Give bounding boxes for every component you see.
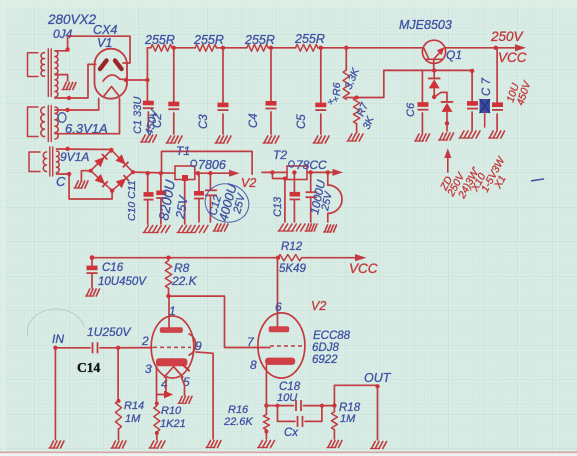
ground C5 — [313, 136, 329, 143]
svg-text:9V1A: 9V1A — [60, 150, 89, 164]
svg-text:C10 C11: C10 C11 — [126, 180, 138, 221]
wire Cx loop — [278, 406, 322, 422]
ground C10 C11 — [143, 226, 170, 233]
capacitor C11 — [156, 191, 166, 199]
wire B+ rail segment 1 — [147, 47, 150, 49]
label Cx — [284, 427, 299, 439]
wire anode coupling loop — [169, 296, 270, 347]
wire C7b column — [496, 48, 498, 130]
svg-text:V2: V2 — [311, 299, 326, 313]
ground C7b — [489, 131, 505, 138]
V1 right anode plate — [115, 61, 122, 70]
capacitor C12b — [205, 190, 217, 195]
svg-text:T2: T2 — [273, 148, 287, 162]
svg-text:3: 3 — [145, 362, 152, 376]
label ZD — [438, 174, 456, 193]
label R12 — [281, 241, 303, 253]
wire T1 out to V2 arrow — [195, 170, 240, 177]
label C6 — [405, 102, 417, 117]
label VCC top — [498, 50, 527, 65]
wire rail seg6 Q1 to VCC arrow — [445, 44, 526, 51]
label 10U c18 — [277, 392, 297, 404]
label 450V C1 — [143, 107, 161, 136]
label 3.3K — [343, 66, 363, 91]
svg-text:6: 6 — [275, 300, 282, 314]
svg-text:T1: T1 — [176, 144, 190, 158]
svg-text:1U250V: 1U250V — [87, 325, 131, 339]
wire input node — [53, 346, 90, 350]
label 22.6K — [223, 416, 253, 428]
label R14 — [124, 400, 144, 412]
svg-text:22.K: 22.K — [171, 274, 198, 288]
label R8 — [174, 261, 190, 275]
label 250V zd — [445, 170, 468, 199]
capacitor C14 — [93, 342, 98, 353]
label 1U250V — [87, 325, 131, 339]
wire C13b column — [310, 172, 312, 222]
V2b cathode bar — [265, 358, 295, 365]
label T2 — [273, 148, 287, 162]
V2a heater vee — [164, 367, 182, 378]
ground C16 — [86, 289, 100, 296]
ground IN — [49, 441, 64, 448]
resistor R14 1M — [116, 399, 122, 440]
label pin 7 — [247, 335, 255, 349]
capacitor C16 — [87, 266, 98, 288]
label 6.3V1A — [65, 121, 108, 136]
label 25V t2 — [319, 190, 335, 213]
svg-text:R10: R10 — [161, 405, 182, 417]
label C2 — [152, 113, 164, 128]
label C12 — [207, 194, 224, 217]
svg-text:R14: R14 — [124, 400, 144, 412]
label pin 5 — [183, 375, 190, 389]
svg-text:78CC: 78CC — [296, 158, 327, 172]
label X1 — [492, 173, 509, 191]
label C3 — [198, 114, 210, 129]
wire T1 gnd pin — [184, 181, 186, 224]
wire rail seg4 — [268, 46, 295, 50]
svg-text:R12: R12 — [281, 241, 303, 253]
label MJE8503 — [399, 18, 452, 32]
label 15V3W — [479, 154, 508, 194]
wire C13 column — [293, 172, 295, 222]
svg-text:0J4: 0J4 — [53, 27, 73, 41]
transformer TR1 core — [48, 49, 51, 97]
wire C11 column — [160, 173, 162, 224]
zener diode ZD2 — [442, 102, 453, 131]
ground C3 — [215, 136, 231, 143]
transformer TR3 primary — [29, 152, 47, 172]
svg-text:Cx: Cx — [284, 427, 299, 439]
label x marks — [325, 94, 341, 107]
transformer TR2 primary — [28, 107, 45, 137]
label C7 — [481, 78, 493, 97]
capacitor C10 — [144, 192, 154, 200]
svg-text:IN: IN — [52, 332, 64, 346]
ground bridge — [74, 181, 88, 188]
capacitor C6 — [418, 102, 429, 110]
label 25V reg — [173, 194, 191, 221]
label C1 33U — [132, 97, 144, 134]
label O 7806 — [191, 158, 226, 172]
svg-text:5K49: 5K49 — [279, 263, 306, 275]
ground T2 area — [278, 224, 337, 232]
svg-text:C13: C13 — [272, 196, 284, 217]
label C winding — [56, 174, 66, 189]
label 1M r18 — [340, 413, 356, 425]
label CX4 — [93, 23, 117, 37]
bridge diode D-BL — [95, 174, 108, 187]
svg-text:VCC: VCC — [349, 261, 378, 276]
ground pin9 — [206, 441, 221, 448]
capacitor C3 — [218, 103, 229, 111]
capacitor C5 — [315, 103, 326, 111]
resistor R10 1K21 — [154, 406, 160, 440]
svg-text:C1 33U: C1 33U — [132, 97, 144, 134]
wire V1 cathode to B+ rail — [124, 78, 150, 82]
resistor R 255R #1 — [144, 33, 175, 51]
svg-text:8: 8 — [250, 358, 257, 372]
label pin 6 — [275, 300, 282, 314]
ground pin5 — [178, 396, 192, 403]
pin9 arc — [189, 334, 196, 355]
wire T2 input — [262, 170, 287, 174]
ground R7 — [347, 134, 363, 141]
resistor R 255R #3 — [244, 33, 275, 51]
label C18 — [279, 381, 301, 393]
capacitor C13 — [290, 192, 301, 200]
svg-text:V2: V2 — [241, 176, 256, 190]
wire C1 column — [146, 48, 149, 133]
transistor Q1 MJE8503 — [422, 40, 445, 63]
label C5 — [296, 114, 308, 129]
label Q1 — [446, 48, 462, 62]
ground OUT — [371, 442, 387, 449]
zener diode ZD1 — [429, 70, 440, 99]
svg-text:22.6K: 22.6K — [223, 416, 253, 428]
resistor R 255R #2 — [193, 33, 224, 51]
wire Q1 base lead — [433, 59, 435, 70]
wire rail R8 to R12 — [166, 256, 280, 260]
label R6 — [331, 82, 343, 96]
wire R6 top — [345, 48, 347, 70]
wire bypass over T1 — [162, 151, 253, 174]
label V2 heater — [241, 176, 256, 190]
svg-text:1K21: 1K21 — [160, 418, 186, 430]
wire to OUT — [334, 384, 379, 440]
svg-text:4: 4 — [161, 377, 168, 391]
bridge rectifier — [91, 150, 133, 191]
wire IN to ground — [54, 348, 56, 440]
wire C12a column — [198, 173, 200, 222]
svg-text:255R: 255R — [193, 33, 224, 47]
resistor R6 3.3K — [343, 70, 349, 99]
wire rail seg3 — [217, 46, 247, 50]
svg-text:6DJ8: 6DJ8 — [312, 342, 339, 354]
scan edge line — [0, 452, 577, 456]
transformer TR3 secondary 9V — [57, 151, 60, 173]
svg-text:9: 9 — [195, 339, 202, 353]
label C10 C11 — [126, 180, 138, 221]
capacitor C12a — [194, 191, 204, 199]
capacitor C1 — [143, 101, 154, 109]
label 1000U — [307, 178, 328, 215]
capacitor C7b — [492, 102, 503, 110]
bridge diode D-TL — [94, 154, 107, 167]
capacitor C7a — [467, 101, 478, 109]
V1 filament — [104, 87, 120, 97]
ground R18 — [327, 441, 342, 448]
wire C10 column — [147, 173, 149, 224]
wire 9V top to bridge — [57, 147, 112, 152]
label R18 — [339, 402, 361, 414]
wire rail to VCC arrow — [302, 254, 367, 261]
label C13 — [272, 196, 284, 217]
transformer TR2 secondary 6.3V — [55, 107, 58, 139]
capacitor C2 — [168, 102, 179, 110]
V2a anode bar — [160, 327, 183, 333]
resistor R16 22.6K — [263, 406, 269, 439]
svg-text:1M: 1M — [125, 413, 141, 425]
ground C4 — [263, 136, 279, 143]
label O ring 6.3V — [58, 113, 66, 123]
label 5K49 — [279, 263, 306, 275]
label 1K21 — [160, 418, 186, 430]
rectifier tube V1 envelope — [95, 49, 128, 99]
wire pin1 lead — [168, 296, 170, 327]
wire cathode node — [266, 403, 336, 407]
label V1 — [97, 36, 112, 50]
ground R10 — [149, 441, 165, 448]
wire 6.3V bottom to filament — [55, 99, 120, 134]
svg-text:C3: C3 — [198, 114, 210, 129]
svg-text:C: C — [56, 174, 66, 189]
svg-text:7806: 7806 — [198, 158, 226, 172]
wire ZD1 to ZD2 — [434, 92, 447, 101]
label 25V c12 — [231, 191, 248, 216]
wire T2 gnd route — [273, 172, 287, 222]
svg-text:OUT: OUT — [364, 371, 392, 385]
wire 9V bottom to bridge — [57, 172, 113, 199]
svg-text:VCC: VCC — [498, 50, 527, 65]
wire grid2 lead — [118, 347, 152, 349]
wire C3 column — [222, 48, 224, 134]
regulator T1 7806 box — [175, 166, 195, 181]
ground T1 pin + C12 — [177, 224, 228, 233]
wire bridge to T1 — [133, 171, 175, 175]
ground R16 — [258, 441, 275, 448]
svg-text:250V: 250V — [490, 29, 525, 44]
svg-text:255R: 255R — [294, 32, 325, 46]
label O 78CC — [289, 158, 327, 172]
svg-text:6922: 6922 — [312, 354, 338, 366]
label R10 — [161, 405, 182, 417]
transformer TR3 core — [50, 147, 53, 176]
svg-text:MJE8503: MJE8503 — [399, 18, 452, 32]
wire pin6 lead — [277, 258, 279, 327]
label ECC88 — [313, 330, 351, 342]
label 6922 — [312, 354, 338, 366]
label 22.K — [171, 274, 198, 288]
wire pin5 to ground — [182, 378, 185, 396]
capacitor C4 — [266, 101, 277, 109]
V2b grid dashes — [270, 345, 302, 347]
svg-text:10U: 10U — [277, 392, 297, 404]
label C4 — [248, 113, 260, 128]
label R16 — [228, 404, 249, 416]
label V2 tube — [311, 299, 326, 313]
label 9V1A — [60, 150, 89, 164]
svg-text:ECC88: ECC88 — [313, 330, 351, 342]
label 10U450V — [98, 276, 147, 288]
wire base node — [346, 68, 474, 97]
blue dash — [532, 179, 544, 181]
svg-text:R16: R16 — [228, 404, 249, 416]
svg-text:C4: C4 — [248, 113, 260, 128]
wire C5 column — [320, 48, 322, 134]
wire C12b column — [209, 173, 211, 222]
ground ZD2 — [439, 133, 454, 140]
label OUT — [364, 371, 392, 385]
V2a grid dashes — [153, 346, 191, 348]
wire bridge minus to ground — [81, 169, 92, 181]
svg-text:280VX2: 280VX2 — [47, 12, 97, 27]
wire pin4 heater arrow — [157, 378, 173, 399]
label T1 — [176, 144, 190, 158]
label C12 loop — [201, 179, 253, 227]
svg-text:C16: C16 — [102, 262, 124, 274]
resistor R 255R #4 — [294, 32, 325, 51]
label 6DJ8 — [312, 342, 339, 354]
svg-text:255R: 255R — [144, 33, 175, 47]
svg-text:Q1: Q1 — [446, 48, 462, 62]
ground C7a — [459, 131, 480, 138]
wire R14 column — [117, 348, 119, 401]
wire cathode3 lead — [155, 366, 159, 406]
label 10U 450V — [504, 79, 533, 107]
regulator T2 box — [287, 166, 307, 180]
svg-text:2: 2 — [141, 334, 149, 348]
wire rail seg2 — [172, 46, 196, 50]
label pin 3 — [145, 362, 152, 376]
transformer TR2 core — [48, 106, 51, 142]
wire C6 column — [421, 70, 423, 133]
label X10 — [469, 171, 489, 194]
capacitor C18 — [296, 400, 301, 411]
label R7 — [355, 100, 372, 118]
capacitor C7 blue film — [480, 99, 491, 127]
svg-text:C 7: C 7 — [481, 78, 493, 97]
resistor R8 22K — [165, 261, 171, 299]
resistor R7 3K — [353, 96, 359, 134]
pencil smudge arc — [27, 309, 84, 336]
triode V2a envelope — [151, 316, 194, 378]
V2a cathode bar — [156, 358, 189, 370]
svg-text:255R: 255R — [244, 33, 275, 47]
V1 left anode plate — [100, 61, 107, 70]
triode V2b envelope — [258, 313, 305, 378]
label VCC bottom — [349, 261, 378, 276]
label IN — [52, 332, 64, 346]
label 280VX2 — [47, 12, 97, 27]
wire rail seg5 to Q1 — [318, 46, 423, 50]
wire center tap — [55, 75, 68, 81]
dot bridge top — [109, 148, 135, 193]
wire pin9 to ground — [196, 352, 213, 439]
wire C16 corner + VCC rail — [90, 255, 169, 265]
wire C4 column — [270, 48, 272, 134]
label C14 — [77, 360, 100, 375]
label 3K — [361, 114, 377, 131]
label pin 4 — [161, 377, 168, 391]
heater loop V1 — [328, 172, 342, 222]
capacitor Cx — [298, 416, 303, 427]
wire cathode8 lead — [264, 365, 268, 408]
V1 cathode arc — [103, 75, 127, 81]
label 24V3W — [456, 165, 483, 201]
ground center-tap — [62, 83, 76, 90]
label pin 8 — [250, 358, 257, 372]
label 8200U — [156, 178, 178, 222]
svg-text:C14: C14 — [77, 360, 100, 375]
svg-text:C5: C5 — [296, 114, 308, 129]
svg-text:C2: C2 — [152, 113, 164, 128]
bridge diode D-BR — [116, 175, 129, 188]
label pin 9 — [195, 339, 202, 353]
svg-text:CX4: CX4 — [93, 23, 117, 37]
label 1M r14 — [125, 413, 141, 425]
transformer TR1 secondary 280VX2 — [55, 51, 58, 97]
wire sec-bottom to V1 anode — [55, 64, 96, 100]
capacitor C13b — [306, 192, 318, 197]
bridge diode D-TR — [115, 154, 128, 167]
label 0J4 — [53, 27, 73, 41]
svg-text:C6: C6 — [405, 102, 417, 117]
V2b anode bar — [269, 326, 290, 332]
svg-text:R8: R8 — [174, 261, 190, 275]
wire C14 to grid — [100, 346, 120, 350]
wire sec-top to V1 anode — [55, 36, 130, 63]
wire 6.3V top to filament — [55, 99, 99, 113]
svg-text:10U450V: 10U450V — [98, 276, 147, 288]
wire C7a column — [471, 71, 473, 130]
svg-text:R6: R6 — [331, 82, 343, 96]
label 4000U — [215, 182, 239, 223]
label 250V — [490, 29, 525, 44]
ground C6 — [415, 134, 430, 141]
wire C2 column — [173, 48, 175, 134]
resistor R12 5K49 — [278, 255, 302, 261]
label C16 — [102, 262, 124, 274]
label pin 1 — [169, 304, 176, 318]
svg-text:1M: 1M — [340, 413, 356, 425]
resistor R18 1M — [331, 406, 337, 439]
label pin 2 — [141, 334, 149, 348]
ground C1 — [141, 135, 157, 142]
transformer TR1 primary (mains) — [28, 53, 45, 77]
ground R14 — [111, 441, 126, 448]
wire T2 out arrow — [292, 169, 343, 176]
ground C2 — [166, 136, 182, 143]
annotation arrow up — [444, 149, 451, 173]
